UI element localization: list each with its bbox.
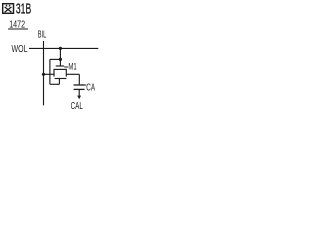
wire: capacitor bottom lead vertical bbox=[78, 89, 80, 96]
wire: bit line BIL vertical bbox=[43, 41, 45, 105]
capacitor CA bbox=[74, 85, 85, 89]
wire: word line WOL horizontal bbox=[29, 47, 98, 49]
capacitor top plate bbox=[74, 84, 85, 86]
svg-text:31B: 31B bbox=[16, 0, 31, 17]
junction node: back-gate branch on gate lead bbox=[59, 58, 62, 61]
junction node: gate to WOL bbox=[59, 47, 62, 50]
left source/drain leg bbox=[53, 69, 55, 76]
channel bar bbox=[54, 68, 67, 70]
capacitor bottom plate bbox=[74, 88, 85, 90]
junction node: drain lead on BIL bbox=[42, 73, 45, 76]
wire: back-gate loop riser up to back-gate bar bbox=[58, 79, 60, 85]
svg-text:CAL: CAL bbox=[71, 99, 84, 111]
figure title kanji 図 (drawn as vector: box + inner X + ticks) bbox=[3, 4, 14, 14]
svg-text:BIL: BIL bbox=[38, 29, 47, 40]
svg-text:CA: CA bbox=[86, 82, 95, 93]
label leader to CA bbox=[85, 84, 87, 86]
svg-text:1472: 1472 bbox=[9, 18, 25, 30]
svg-text:M1: M1 bbox=[68, 61, 76, 72]
underline of 1472 bbox=[8, 28, 28, 30]
label leader to M1 bbox=[64, 66, 68, 68]
wire: capacitor top lead vertical bbox=[78, 74, 80, 84]
wire: back-gate loop left vertical bbox=[49, 59, 51, 84]
svg-text:WOL: WOL bbox=[12, 43, 28, 54]
wire: branch from gate node to back-gate loop (horizontal) bbox=[50, 58, 61, 60]
wire: source lead from transistor to capacitor bbox=[66, 73, 79, 75]
top gate bar bbox=[56, 65, 64, 67]
terminal arrow to CAL (arrowhead) bbox=[77, 96, 81, 100]
wire: drain lead from BIL to transistor bbox=[44, 73, 55, 75]
wire: back-gate loop bottom horizontal bbox=[50, 83, 60, 85]
right source/drain leg bbox=[65, 69, 67, 76]
transistor M1 (dual-gate OS transistor) bbox=[54, 66, 67, 79]
wire: gate lead from WOL down to gate bar bbox=[59, 48, 61, 66]
back gate bar bbox=[55, 78, 67, 80]
wires bbox=[29, 41, 98, 105]
